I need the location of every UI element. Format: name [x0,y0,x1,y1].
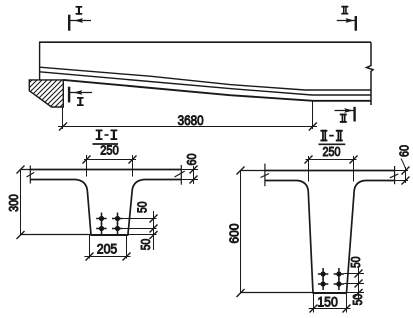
svg-text:60: 60 [396,145,411,157]
section II-II: web bottom edge (thick) [313,292,348,294]
beam elevation: top edge [39,41,371,43]
svg-text:50: 50 [134,202,149,214]
section I-I: web bottom edge (thick) [91,234,129,236]
svg-text:300: 300 [6,194,21,212]
dim 205 (I-I bottom): ticks [86,253,131,261]
dim 250 (II-II top): extension lines [309,156,354,182]
dim 60 (I-I flange): extension lines [181,170,198,180]
dim 60 (II-II flange): leader [401,159,406,169]
dim 50/50 (II-II rebar): dimension line [358,267,360,301]
dim 50/50 (II-II rebar): ticks [355,270,363,298]
section mark I bottom-left: sight line [69,92,92,94]
section II-II: flange left break end [264,164,266,187]
dim 150 (II-II bottom): ticks [310,305,351,313]
dim 60 (II-II flange): extension lines [395,171,408,181]
section II-II: flange right break end [394,166,396,184]
dim 600 (II-II left): extension lines [241,171,313,293]
section mark II bottom-right: arrowhead [344,108,353,113]
dim 150 (II-II bottom): extension lines [314,293,347,313]
dim 300 (I-I left): extension lines [21,170,91,235]
section mark II bottom-right: cut bar [353,107,355,122]
svg-text:50: 50 [348,257,363,269]
label II-II: underline [319,143,346,145]
label II (top-right): serif glyph [341,6,348,15]
svg-text:250: 250 [100,143,119,158]
dimension 3680: ticks [59,123,317,131]
dim 250 (I-I top): dimension line [84,159,136,161]
section mark I bottom-left: arrowhead [73,90,82,95]
svg-text:50: 50 [138,239,153,251]
label I-I: serif glyphs [96,130,118,141]
beam elevation: right end edge with break mark [367,42,374,105]
section I-I: flange left break end [29,166,31,184]
dim 50/50 (I-I rebar): dimension line [153,211,155,250]
svg-text:600: 600 [226,223,241,243]
dim 205 (I-I bottom): extension lines [90,235,127,259]
dim 60 (II-II flange): dimension line [405,167,407,183]
svg-text:205: 205 [97,240,118,256]
section mark II bottom-right: sight line [335,110,355,112]
dim 300 (I-I left): dimension line [20,170,22,236]
dim 250 (II-II top): ticks [305,156,358,164]
section mark I top-left: cut bar [68,15,70,31]
section II-II: flange bottom + web outline [265,181,395,294]
section mark I top-left: arrowhead [74,18,83,23]
section I-I: flange top edge [30,169,181,171]
section mark I top-left: sight line [69,20,91,22]
dim 600 (II-II left): ticks [237,167,245,298]
dim 250 (I-I top): ticks [83,156,137,164]
rebar dots II-II: cross arms [318,268,344,290]
rebar dots I-I: cross arms [96,213,122,235]
dim 60 (I-I flange): ticks [190,166,198,184]
dim 600 (II-II left): dimension line [240,171,242,294]
dim 300 (I-I left): ticks [17,166,25,240]
section mark I bottom-left: cut bar [68,87,70,103]
section I-I: flange bottom + web outline [30,180,181,236]
dim 50/50 (II-II rebar): extension lines [344,274,364,293]
dim 60 (I-I flange): dimension line [193,166,195,184]
dim 150 (II-II bottom): dimension line [309,308,351,310]
svg-text:3680: 3680 [178,112,204,128]
svg-text:50: 50 [350,294,365,306]
label II-II: serif glyphs [320,130,342,142]
svg-text:60: 60 [184,154,199,166]
dimension 3680: dimension line [58,126,317,128]
beam elevation: lower sloped flange line [40,72,371,95]
dim 50/50 (I-I rebar): ticks [150,215,158,240]
beam elevation: bottom soffit line [63,80,371,101]
support corbel outline [29,80,63,107]
beam elevation: upper sloped flange line [40,67,371,90]
dim 250 (I-I top): extension lines [87,155,133,177]
section mark II top-right: arrowhead [346,18,355,23]
section mark II top-right: sight line [337,20,356,22]
label II (bottom-right): serif glyph [340,114,347,123]
label I (bottom-left): serif glyph [77,97,84,106]
svg-text:150: 150 [317,293,338,309]
section II-II: flange top edge [265,170,395,172]
rebar dots I-I: bars [99,216,120,231]
dimension 3680: extension lines [63,101,313,129]
label I (top-left): serif glyph [76,6,83,15]
section mark II top-right: cut bar [355,16,357,31]
support corbel hatching [18,72,68,112]
beam elevation: left end edge [39,42,41,80]
dim 60 (II-II flange): ticks [402,167,410,185]
label I-I: underline [93,143,119,145]
dim 250 (II-II top): dimension line [306,159,357,161]
section I-I: flange right break end [180,165,182,185]
dim 205 (I-I bottom): dimension line [84,256,130,258]
svg-text:250: 250 [323,144,341,159]
dim 50/50 (I-I rebar): extension lines [122,219,156,235]
rebar dots II-II: bars [321,271,342,286]
